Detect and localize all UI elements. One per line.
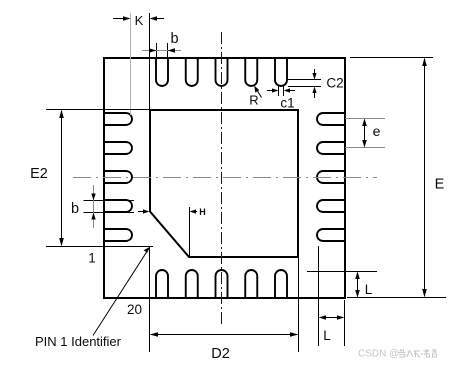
bottom pin 4 bbox=[245, 270, 257, 298]
dimension E top extension line bbox=[350, 57, 433, 59]
svg-text:20: 20 bbox=[127, 302, 142, 317]
dimension e extension lines bbox=[345, 118, 385, 120]
dimension K dark extension line bbox=[149, 13, 151, 110]
top pin 20 bbox=[275, 58, 287, 86]
dimension E bottom extension line bbox=[347, 297, 446, 299]
dimension E arrows bbox=[422, 58, 427, 298]
svg-text:H: H bbox=[199, 207, 206, 217]
bottom pin 3 bbox=[216, 270, 228, 298]
top pin 16 bbox=[156, 58, 168, 86]
dimension L (vertical) extension line bbox=[307, 271, 377, 273]
svg-text:C2: C2 bbox=[326, 76, 343, 91]
svg-text:c1: c1 bbox=[280, 96, 294, 111]
vertical centerline bbox=[221, 32, 223, 327]
right pin 7 bbox=[317, 229, 345, 241]
svg-text:L: L bbox=[365, 282, 373, 297]
dimension b (top) arrows bbox=[142, 48, 181, 53]
dimension C2 arrows bbox=[312, 69, 316, 98]
left pin 5 bbox=[104, 113, 132, 125]
dimension L (horizontal) extension lines bbox=[318, 246, 320, 346]
watermark bbox=[358, 349, 437, 360]
svg-text:K: K bbox=[135, 13, 144, 28]
dimension E2 top extension line bbox=[46, 109, 150, 111]
svg-text:1: 1 bbox=[88, 251, 96, 266]
svg-text:PIN 1 Identifier: PIN 1 Identifier bbox=[35, 334, 122, 349]
watermark glyph 1 bbox=[399, 349, 406, 357]
top pin 18 bbox=[216, 58, 228, 86]
right pin 9 bbox=[317, 171, 345, 183]
dimension b (left) arrows bbox=[91, 185, 95, 228]
bottom pin 5 bbox=[275, 270, 287, 298]
watermark hyphen bbox=[421, 353, 424, 355]
svg-text:D2: D2 bbox=[211, 346, 230, 362]
left pin 1 bbox=[104, 229, 132, 241]
top pin 17 bbox=[186, 58, 198, 86]
radius leader R bbox=[254, 86, 261, 98]
svg-text:E: E bbox=[435, 177, 445, 193]
svg-text:CSDN @: CSDN @ bbox=[358, 349, 399, 360]
top pin 19 bbox=[245, 58, 257, 86]
right pin 10 bbox=[317, 142, 345, 154]
watermark glyph 2 bbox=[407, 350, 413, 357]
svg-text:L: L bbox=[323, 328, 331, 343]
right pin 11 bbox=[317, 113, 345, 125]
dimension L (horizontal) arrows bbox=[319, 315, 345, 320]
horizontal centerline bbox=[73, 177, 377, 179]
left pin 3 bbox=[104, 171, 132, 183]
svg-text:R: R bbox=[249, 93, 258, 108]
svg-text:b: b bbox=[170, 31, 178, 47]
svg-text:E2: E2 bbox=[30, 166, 48, 182]
svg-text:e: e bbox=[373, 123, 381, 139]
dimension K arrows bbox=[113, 16, 164, 21]
watermark glyph 4 bbox=[424, 349, 430, 357]
bottom pin 2 bbox=[186, 270, 198, 298]
dimension E2 arrows bbox=[59, 110, 64, 247]
exposed pad with pin-1 chamfer bbox=[150, 110, 298, 257]
dimension C2 extension lines bbox=[288, 79, 321, 81]
watermark glyph 5 bbox=[432, 349, 438, 357]
left pin 4 bbox=[104, 142, 132, 154]
pin 1 identifier leader line bbox=[93, 247, 150, 336]
bottom pin 1 (pin 20 side) bbox=[156, 270, 168, 298]
dimension K gray extension line bbox=[130, 13, 132, 115]
svg-text:b: b bbox=[71, 201, 79, 217]
package body outline bbox=[104, 58, 345, 298]
dimension D2 arrows bbox=[150, 332, 299, 337]
dimension H vertical line bbox=[189, 207, 191, 257]
dimension b (left) extension lines bbox=[84, 200, 135, 202]
dimension D2 left extension line bbox=[149, 247, 151, 352]
dimension c1 arrows bbox=[267, 88, 295, 92]
right pin 8 bbox=[317, 200, 345, 212]
dimension e arrows bbox=[362, 119, 367, 148]
dimension b (top) extension lines bbox=[156, 43, 158, 59]
dimension H arrows bbox=[138, 209, 197, 213]
left pin 2 bbox=[104, 200, 132, 212]
dimension c1 ticks bbox=[278, 85, 280, 96]
dimension L (vertical) arrows bbox=[355, 272, 360, 298]
dimension E2 bottom extension line (pin 1 line) bbox=[46, 246, 153, 248]
watermark glyph 3 bbox=[414, 351, 421, 357]
dimension D2 right extension line bbox=[298, 258, 300, 352]
